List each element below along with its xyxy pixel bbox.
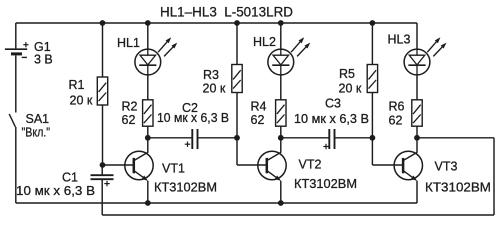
resistor R3 [232, 65, 242, 93]
wire R2 to collector node VT1 [147, 126, 149, 138]
wire R1 to base node VT1 [102, 105, 104, 165]
resistor R4 [276, 100, 286, 126]
switch SA1 [9, 114, 16, 203]
wire down to VT2 base [236, 138, 238, 165]
svg-text:R1: R1 [69, 78, 85, 92]
wire C2 to base node VT2 [198, 137, 238, 139]
svg-text:HL1–HL3 L-5013LRD: HL1–HL3 L-5013LRD [160, 5, 293, 21]
svg-text:R5: R5 [339, 67, 355, 81]
node collector VT3 [414, 135, 420, 141]
node top rail HL1 junction [145, 20, 151, 26]
svg-text:C3: C3 [325, 97, 341, 111]
node top rail R3 junction [234, 20, 240, 26]
wire R5 column from rail [371, 23, 373, 65]
node collector VT2 [278, 135, 284, 141]
svg-text:10 мк х 6,3 В: 10 мк х 6,3 В [157, 111, 229, 125]
wire down to VT3 base [371, 138, 373, 165]
LED HL1 [135, 49, 161, 75]
svg-text:10 мк х 6,3 В: 10 мк х 6,3 В [294, 112, 369, 126]
svg-text:"Вкл.": "Вкл." [22, 126, 51, 140]
HL1 light arrows [158, 37, 177, 56]
resistor R1 [97, 77, 107, 105]
wire base node to VT1 base [103, 164, 134, 166]
node C3/R5 junction [370, 135, 376, 141]
battery G1 [5, 23, 29, 113]
wire bottom feedback [102, 214, 494, 216]
wire collector node down to VT1 [147, 138, 149, 153]
svg-text:R2: R2 [122, 99, 138, 113]
wire VT3 emitter to rail corner [416, 181, 418, 203]
wire collector VT3 to right edge [417, 137, 494, 139]
resistor R5 [367, 65, 377, 93]
transistor VT3 [394, 151, 422, 181]
svg-text:62: 62 [122, 113, 136, 127]
svg-text:HL3: HL3 [388, 32, 411, 46]
wire R3 to C2 node [236, 93, 238, 138]
wire VT2 emitter to rail [280, 181, 282, 203]
wire collector node down to VT2 [280, 138, 282, 153]
node base VT1 [100, 162, 106, 168]
wire R3 column from rail [236, 23, 238, 65]
transistor VT1 [125, 151, 153, 181]
wire HL1 to R2 [147, 75, 149, 100]
resistor R6 [412, 100, 422, 126]
wire HL2 column from rail [280, 23, 282, 49]
wire emitter ground rail [16, 202, 417, 204]
svg-text:КТ3102ВМ: КТ3102ВМ [294, 177, 357, 191]
wire VT1 emitter to rail [147, 181, 149, 203]
wire R5 to C3 node [371, 93, 373, 138]
wire collector node down to VT3 [416, 138, 418, 153]
LED HL2 [268, 49, 294, 75]
svg-text:КТ3102ВМ: КТ3102ВМ [154, 180, 217, 194]
capacitor C2 [185, 129, 198, 149]
node VT2 emitter on rail [278, 200, 284, 206]
node collector VT1 [145, 135, 151, 141]
wire R4 to collector node VT2 [280, 126, 282, 138]
capacitor C3 [323, 129, 334, 149]
wire HL3 column from rail [416, 23, 418, 49]
svg-text:VT1: VT1 [162, 161, 185, 175]
capacitor C1 [91, 165, 114, 186]
wire HL3 to R6 [416, 75, 418, 100]
wire collector VT2 to C3 [281, 137, 330, 139]
svg-text:R6: R6 [389, 99, 405, 113]
resistor R2 [143, 100, 153, 126]
node VT1 emitter on rail [145, 200, 151, 206]
svg-text:HL1: HL1 [117, 36, 140, 50]
HL2 light arrows [291, 37, 310, 56]
svg-text:20 к: 20 к [203, 81, 226, 95]
wire C3 to base node VT3 [335, 137, 373, 139]
node top rail R1 junction [100, 20, 106, 26]
wire R6 to collector node VT3 [416, 126, 418, 138]
svg-text:R4: R4 [251, 99, 267, 113]
svg-text:КТ3102ВМ: КТ3102ВМ [425, 180, 491, 194]
wire top positive rail [16, 22, 417, 24]
svg-text:62: 62 [251, 113, 265, 127]
svg-text:3 В: 3 В [34, 53, 53, 67]
svg-text:C1: C1 [62, 171, 78, 185]
LED HL3 [404, 49, 430, 75]
HL3 light arrows [427, 37, 446, 56]
node top rail HL2 junction [278, 20, 284, 26]
wire HL1 column from rail [147, 23, 149, 49]
svg-text:VT2: VT2 [299, 158, 322, 172]
wire R1 column from rail [102, 23, 104, 77]
svg-text:VT3: VT3 [435, 160, 458, 174]
wire right edge down [493, 138, 495, 215]
transistor VT2 [258, 151, 286, 181]
node top rail R5 junction [370, 20, 376, 26]
wire feedback up to C1 [101, 179, 103, 215]
wire HL2 to R4 [280, 75, 282, 100]
wire collector VT1 to C2 [148, 137, 193, 139]
node C2/R3 junction [234, 135, 240, 141]
svg-text:20 к: 20 к [70, 94, 93, 108]
svg-text:62: 62 [389, 114, 403, 128]
svg-text:HL2: HL2 [253, 35, 276, 49]
svg-text:R3: R3 [203, 68, 219, 82]
svg-text:20 к: 20 к [339, 82, 362, 96]
svg-text:10 мк х 6,3 В: 10 мк х 6,3 В [16, 184, 95, 198]
svg-text:SA1: SA1 [26, 112, 50, 126]
